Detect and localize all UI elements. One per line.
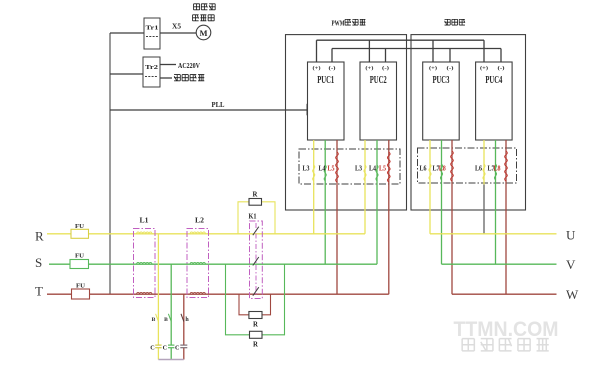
resistor R (phase S precharge) [250,331,263,338]
svg-text:PLL: PLL [212,100,225,109]
wire: PUC1 phase b (green) with inductor L4 [324,140,326,264]
wire: feeder vertical from Tr1 tap down to phase T [109,33,111,294]
wire: PUC4 phase b (green) with inductor L7 [495,140,497,264]
svg-text:TTMN.COM: TTMN.COM [454,317,559,341]
svg-text:L3: L3 [303,164,310,172]
svg-text:(+): (+) [313,65,321,72]
K1 contact on phase R [253,227,259,236]
wire: PUC3 phase a (yellow) with inductor L6 [429,140,431,234]
wire: feeder to Tr1 [110,32,144,34]
svg-text:L1: L1 [140,216,149,225]
transformer Tr2 [143,57,160,87]
svg-text:L6: L6 [420,164,427,172]
wire: capacitor tap phase R [157,234,159,345]
power unit PUC3 [423,62,460,140]
svg-text:AC220V: AC220V [178,61,200,70]
wire: PUC4 phase a (yellow) with inductor L6 [483,140,485,185]
svg-text:M: M [199,28,207,38]
svg-text:Tr1: Tr1 [146,25,159,32]
capacitor C (R tap) [155,344,161,346]
wire: PUC3 phase c (maroon) with inductor L8 [451,140,453,294]
wire: PUC2 phase b (green) with inductor L4 [376,140,378,264]
svg-text:L3: L3 [355,164,362,172]
phase U line (yellow) [430,233,557,235]
wire: maroon bypass loop [239,294,249,315]
fuse FU (phase S) [70,260,89,269]
DC bus (+) rail [317,39,485,41]
phase W line (maroon) [452,293,557,295]
inductor bank box (inverter side) [418,148,517,183]
switch contact B (R tap) [156,314,159,322]
svg-text:C: C [150,345,154,352]
label 爆风机 [193,15,199,21]
svg-text:(-): (-) [447,65,454,72]
svg-text:B: B [152,317,156,323]
phase V line (green) [442,263,557,265]
L2 winding on phase T [190,292,206,294]
svg-text:PUC4: PUC4 [485,75,502,86]
wire: capacitor tap phase T [183,294,185,345]
wire: PUC2 phase a (yellow) with inductor L3 [364,140,366,234]
DC bus (-) rail [332,48,501,50]
wire: green bypass loop [226,264,250,335]
switch contact h (T tap) [181,314,184,322]
svg-text:(-): (-) [382,65,389,72]
wire: PUC1 phase a (yellow) with inductor L3 [313,140,315,234]
L1 winding on phase T [137,292,153,294]
wire: Tr1 to fan motor [160,32,196,34]
filter choke L1 box [134,229,156,298]
phase T line (maroon) [47,293,389,295]
capacitor bank common bus [158,359,183,361]
wire: PUC4 phase c (maroon) with inductor L8 [505,140,507,294]
wire: Tr2 control voltage output [160,77,172,79]
svg-text:L5: L5 [379,164,386,172]
svg-text:Tr2: Tr2 [145,64,158,71]
svg-text:C: C [163,345,167,352]
label 散热防 [194,4,200,10]
svg-text:(+): (+) [480,65,488,72]
wire: PUC2 (-) riser [385,49,387,63]
inverter enclosure [411,35,526,210]
motor M (fan) [196,25,211,40]
PWM rectifier enclosure [286,35,407,210]
svg-text:K1: K1 [249,213,257,221]
power unit PUC4 [476,62,512,140]
wire: PUC4 phase a lower segment (gray) [483,185,485,234]
L2 winding on phase S [190,262,206,264]
transformer Tr1 [144,18,160,49]
svg-text:B: B [164,317,168,323]
wire: Tr2 AC220V output [160,64,176,66]
wire: yellow bypass loop [238,202,249,234]
wire: feeder to Tr2 [110,73,143,75]
svg-text:PUC3: PUC3 [432,75,449,86]
wire: PUC1 phase c (maroon) with inductor L5 [336,140,338,294]
power unit PUC1 [308,62,345,140]
label 逆变器 [445,19,451,25]
terminal on PUC1 (PLL input) [307,104,311,115]
svg-text:R: R [253,322,258,329]
wire: capacitor tap phase S [170,264,172,345]
wire: PUC1 (-) riser [331,49,333,63]
fuse FU (phase T) [72,289,90,299]
svg-text:(-): (-) [329,65,336,72]
filter choke L2 box [187,229,209,298]
L1 winding on phase R [137,232,153,234]
wire: PUC1 (+) riser [316,40,318,62]
svg-text:PUC1: PUC1 [317,75,334,86]
svg-text:L8: L8 [494,164,501,172]
svg-text:S: S [35,255,42,270]
contactor K1 box [250,221,263,299]
K1 contact on phase T [253,287,259,296]
svg-text:L8: L8 [439,164,446,172]
wire: PUC4 (+) riser [483,40,485,62]
wire: PUC3 (-) riser [449,49,451,63]
svg-text:L6: L6 [475,164,482,172]
phase R line (yellow) [47,233,365,235]
svg-text:(+): (+) [429,65,437,72]
svg-text:L4: L4 [369,164,376,172]
svg-text:(+): (+) [365,65,373,72]
wire: PUC4 (-) riser [500,49,502,63]
svg-text:L5: L5 [328,164,335,172]
wire: PUC2 (+) riser [368,40,370,62]
svg-text:R: R [253,192,258,199]
svg-text:T: T [35,284,43,299]
svg-text:W: W [566,287,579,302]
svg-text:R: R [253,342,258,349]
svg-text:(-): (-) [498,65,505,72]
phase S line (green) [49,263,377,265]
wire: PUC3 (+) riser [432,40,434,62]
svg-text:PWM: PWM [332,20,345,28]
K1 contact on phase S [253,257,259,266]
wire: PUC3 phase b (green) with inductor L7 [441,140,443,264]
svg-text:PUC2: PUC2 [370,75,387,86]
inductor bank box (PWM side) [299,149,400,184]
wire: PUC2 phase c (maroon) with inductor L5 [388,140,390,294]
L1 winding on phase S [137,262,153,264]
switch contact B (S tap) [168,314,171,322]
watermark 中国坊机网 [462,339,474,351]
capacitor C (T tap) [180,344,187,346]
wire PLL [110,109,307,111]
resistor R (phase T precharge) [249,312,262,319]
svg-text:FU: FU [75,253,84,260]
svg-text:X5: X5 [172,23,182,31]
svg-text:FU: FU [76,282,85,289]
svg-text:FU: FU [75,223,84,230]
svg-text:L2: L2 [195,216,204,225]
L2 winding on phase R [190,232,206,234]
capacitor C (S tap) [168,344,174,346]
svg-text:U: U [566,228,576,243]
resistor R (phase R precharge) [249,199,262,206]
svg-text:C: C [175,345,179,352]
svg-text:V: V [566,257,576,272]
fuse FU (phase R) [71,229,89,238]
power unit PUC2 [360,62,397,140]
svg-text:R: R [35,229,44,244]
svg-text:L4: L4 [319,164,326,172]
label 控制电压 [174,75,180,81]
